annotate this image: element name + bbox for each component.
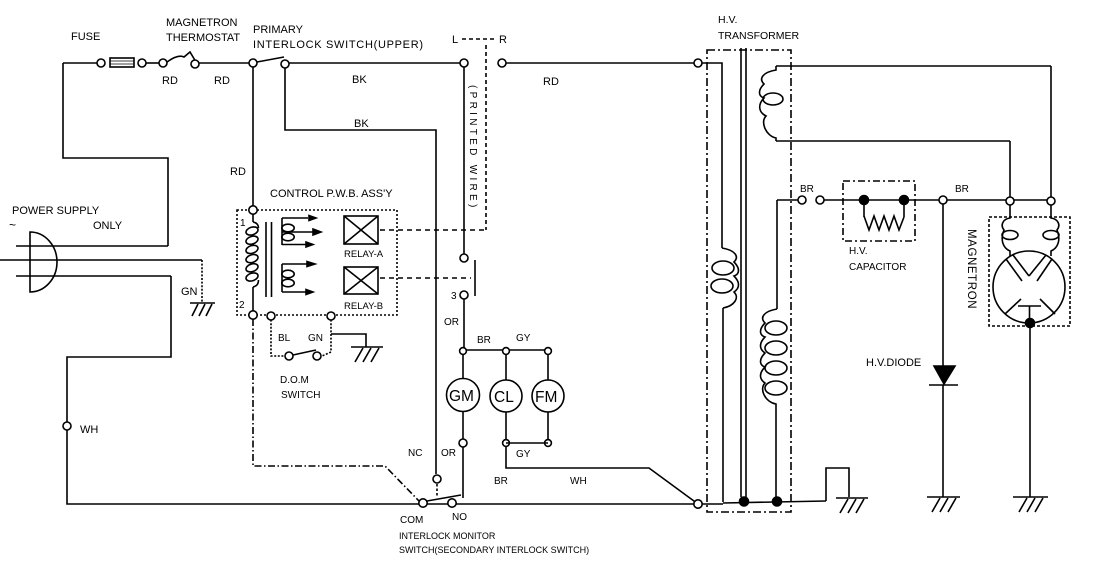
svg-text:RD: RD bbox=[543, 76, 559, 88]
svg-text:RD: RD bbox=[230, 166, 246, 178]
junction capacitor left bbox=[860, 196, 869, 205]
junction magnetron ground bbox=[1026, 319, 1035, 328]
junction core ground bbox=[740, 497, 749, 506]
chassis ground step bbox=[826, 468, 849, 501]
wire top rail left bbox=[63, 62, 101, 64]
wire transformer bottom rail bbox=[702, 503, 723, 505]
magnetron box bbox=[989, 217, 1070, 326]
svg-text:INTERLOCK MONITOR: INTERLOCK MONITOR bbox=[399, 531, 496, 541]
relay A bbox=[344, 216, 378, 244]
svg-text:FUSE: FUSE bbox=[71, 31, 100, 43]
node GN bbox=[327, 312, 335, 320]
control pwb assy box bbox=[237, 210, 397, 315]
svg-text:TRANSFORMER: TRANSFORMER bbox=[718, 30, 800, 42]
magnetron tube bbox=[993, 251, 1065, 325]
node junction GM bbox=[460, 348, 467, 355]
svg-text:THERMOSTAT: THERMOSTAT bbox=[166, 32, 240, 44]
svg-text:~: ~ bbox=[9, 218, 16, 232]
svg-text:MAGNETRON: MAGNETRON bbox=[965, 229, 977, 309]
wire BR to filament nodes bbox=[947, 199, 1051, 201]
fuse F1 bbox=[97, 58, 146, 67]
motor FM bbox=[532, 354, 564, 439]
node FM bottom bbox=[545, 440, 552, 447]
motor CL bbox=[490, 354, 522, 439]
wire CL-FM join bbox=[506, 442, 548, 444]
control transformer primary coil bbox=[245, 214, 259, 311]
svg-text:CONTROL P.W.B. ASS'Y: CONTROL P.W.B. ASS'Y bbox=[270, 188, 393, 200]
magnetron filament lead left bbox=[1002, 205, 1010, 256]
ground diode bbox=[927, 497, 960, 512]
terminal 1 bbox=[249, 206, 257, 214]
wire BK to L node bbox=[289, 62, 460, 64]
ground magnetron bbox=[1013, 497, 1048, 512]
svg-text:GM: GM bbox=[449, 388, 474, 405]
node BL bbox=[267, 312, 275, 320]
wire thermostat to interlock bbox=[199, 62, 249, 64]
svg-text:SWITCH: SWITCH bbox=[281, 390, 320, 401]
ground transformer bbox=[836, 498, 868, 513]
svg-text:BR: BR bbox=[477, 335, 491, 346]
wire GN to ground bbox=[331, 334, 366, 347]
HV secondary winding bbox=[761, 204, 788, 502]
svg-text:FM: FM bbox=[535, 389, 557, 406]
svg-text:RD: RD bbox=[162, 75, 178, 87]
capacitor internal resistor bbox=[864, 200, 904, 230]
svg-text:POWER SUPPLY: POWER SUPPLY bbox=[12, 205, 100, 217]
wire into primary bbox=[702, 63, 722, 248]
svg-text:INTERLOCK SWITCH(UPPER): INTERLOCK SWITCH(UPPER) bbox=[253, 39, 424, 51]
primary interlock switch (upper) bbox=[249, 57, 289, 68]
motor bus wire bbox=[463, 349, 548, 351]
ground GN bbox=[190, 303, 215, 316]
svg-text:COM: COM bbox=[400, 515, 423, 526]
svg-text:GY: GY bbox=[516, 449, 531, 460]
svg-text:OR: OR bbox=[441, 448, 456, 459]
svg-text:H.V.DIODE: H.V.DIODE bbox=[866, 357, 921, 369]
svg-text:D.O.M: D.O.M bbox=[280, 375, 309, 386]
wire filament drops bbox=[1009, 141, 1011, 197]
svg-text:NO: NO bbox=[452, 512, 467, 523]
power supply plug bbox=[0, 232, 202, 292]
node filament right bbox=[1047, 197, 1055, 205]
HV transformer box bbox=[707, 50, 791, 512]
svg-text:OR: OR bbox=[444, 317, 459, 328]
svg-text:CL: CL bbox=[494, 389, 514, 406]
svg-text:RD: RD bbox=[214, 75, 230, 87]
svg-text:RELAY-B: RELAY-B bbox=[344, 301, 383, 312]
DOM switch wires BL GN bbox=[271, 316, 331, 356]
wire RD down to control pwb terminal 1 bbox=[252, 67, 254, 206]
DOM switch contacts bbox=[285, 350, 321, 360]
relay contact upper bbox=[460, 254, 468, 262]
wire fuse to thermostat bbox=[146, 62, 159, 64]
terminal 2 bbox=[249, 311, 257, 319]
svg-text:MAGNETRON: MAGNETRON bbox=[166, 17, 238, 29]
svg-text:GN: GN bbox=[308, 333, 323, 344]
node transformer bottom bbox=[694, 500, 702, 508]
magnetron filament lead right bbox=[1051, 205, 1059, 256]
wire WH to transformer bottom bbox=[506, 446, 698, 504]
wire magnetron to ground bbox=[1029, 326, 1031, 497]
svg-text:BR: BR bbox=[955, 184, 969, 195]
svg-text:BK: BK bbox=[354, 118, 369, 130]
svg-text:R: R bbox=[499, 34, 507, 46]
node at transformer input bbox=[694, 59, 702, 67]
wire filament top bbox=[776, 65, 1051, 67]
node junction FM bbox=[545, 348, 552, 355]
node CL bottom bbox=[503, 440, 510, 447]
wire filament bottom bbox=[776, 140, 1010, 142]
wire OR to NO blade bbox=[462, 447, 464, 498]
wire bottom rail bbox=[67, 500, 694, 504]
control transformer secondary lower bbox=[282, 262, 315, 295]
wire relay A dashed output bbox=[380, 229, 486, 231]
svg-text:BR: BR bbox=[494, 476, 508, 487]
svg-text:BR: BR bbox=[800, 184, 814, 195]
svg-text:L: L bbox=[452, 34, 458, 46]
node junction CL bbox=[503, 348, 510, 355]
wire left vertical from fuse bbox=[63, 63, 168, 246]
svg-text:GN: GN bbox=[181, 286, 198, 298]
svg-text:WH: WH bbox=[570, 476, 587, 487]
svg-text:BK: BK bbox=[352, 74, 367, 86]
wire from terminal 2 bbox=[253, 319, 419, 501]
wire BK second bbox=[285, 68, 436, 474]
svg-text:CAPACITOR: CAPACITOR bbox=[849, 262, 906, 273]
wire R to HV transformer bbox=[506, 62, 694, 64]
svg-text:SWITCH(SECONDARY INTERLOCK SWI: SWITCH(SECONDARY INTERLOCK SWITCH) bbox=[399, 545, 589, 555]
HV capacitor box bbox=[843, 181, 915, 241]
HV transformer primary coil bbox=[711, 248, 739, 502]
svg-text:1: 1 bbox=[240, 218, 246, 229]
svg-text:WH: WH bbox=[80, 424, 98, 436]
wire L down to relay contact bbox=[463, 67, 465, 254]
wire neutral to GN ground bbox=[201, 260, 203, 302]
wire to capacitor bbox=[824, 199, 939, 201]
svg-text:GY: GY bbox=[516, 333, 531, 344]
motor GM bbox=[447, 354, 480, 439]
svg-text:RELAY-A: RELAY-A bbox=[344, 249, 384, 260]
control transformer core bbox=[265, 222, 267, 297]
printed wire dashed outline bbox=[485, 45, 487, 230]
svg-text:2: 2 bbox=[239, 300, 245, 311]
junction HV secondary ground bbox=[773, 497, 782, 506]
HV diode bbox=[929, 204, 958, 497]
node OR below GM bbox=[459, 439, 467, 447]
wire live bottom loop bbox=[67, 276, 171, 500]
svg-text:NC: NC bbox=[408, 448, 422, 459]
wire OR down to motor bus bbox=[463, 299, 465, 350]
svg-text:H.V.: H.V. bbox=[849, 246, 868, 257]
control transformer secondary upper bbox=[282, 216, 321, 248]
svg-text:BL: BL bbox=[278, 333, 291, 344]
junction capacitor right bbox=[900, 196, 909, 205]
svg-text:3: 3 bbox=[451, 291, 457, 302]
node diode tap bbox=[939, 196, 947, 204]
svg-text:ONLY: ONLY bbox=[93, 220, 123, 232]
terminal 3 bbox=[460, 291, 468, 299]
node filament left bbox=[1006, 197, 1014, 205]
relay contact bar bbox=[474, 260, 476, 296]
wire HV secondary to capacitor rail bbox=[776, 200, 778, 204]
node WH bbox=[63, 422, 71, 430]
svg-text:(PRINTED WIRE): (PRINTED WIRE) bbox=[467, 85, 478, 211]
magnetron thermostat bbox=[159, 52, 199, 68]
filament winding bbox=[760, 66, 784, 141]
relay B bbox=[344, 267, 378, 294]
wire dashed L to R top bbox=[462, 38, 496, 40]
wire relay B dashed output bbox=[380, 277, 471, 279]
node R bbox=[498, 59, 506, 67]
svg-text:H.V.: H.V. bbox=[718, 14, 737, 26]
svg-text:PRIMARY: PRIMARY bbox=[253, 24, 304, 36]
interlock monitor switch bbox=[419, 475, 461, 507]
node L bbox=[460, 59, 468, 67]
connector pair BR bbox=[798, 196, 806, 204]
HV transformer core bbox=[740, 48, 742, 497]
ground DOM bbox=[351, 347, 383, 362]
